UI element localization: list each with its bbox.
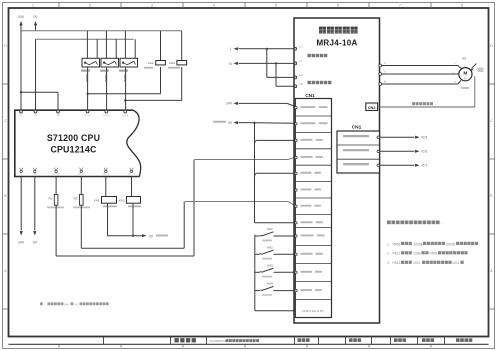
relay contact KA4 (NO) bbox=[255, 290, 260, 292]
svg-text:M: M bbox=[35, 115, 37, 117]
servo pin L11 bbox=[294, 76, 297, 79]
label main power supply (Chinese) bbox=[308, 54, 311, 57]
svg-text:I0.5: I0.5 bbox=[422, 136, 428, 140]
svg-text:24V: 24V bbox=[18, 241, 25, 245]
CN1 pin 11 bbox=[295, 271, 297, 273]
wire CPU DQa.2 to relay coil KA1 bbox=[105, 177, 107, 197]
CPU top pin M bbox=[34, 110, 37, 113]
CPU top pin DI a.2 bbox=[86, 110, 89, 113]
note common supply (Chinese) bbox=[40, 302, 43, 305]
wire coil KA1 to 0V arrow bbox=[107, 203, 109, 236]
label servo driver title (Chinese) bbox=[319, 27, 326, 34]
svg-text:KA1: KA1 bbox=[267, 227, 273, 231]
svg-text:6: 6 bbox=[337, 4, 339, 8]
svg-text:KA3: KA3 bbox=[169, 61, 175, 65]
wire CPU DQa.0 to resistor R1 bbox=[55, 177, 57, 195]
junction N to L21 bbox=[275, 62, 277, 64]
svg-text:KA3: KA3 bbox=[267, 263, 273, 267]
wire 0V vertical bus bbox=[254, 123, 256, 223]
relay coil KA2 bbox=[156, 61, 166, 65]
svg-text:R2: R2 bbox=[74, 197, 78, 201]
svg-text:L11: L11 bbox=[299, 74, 303, 77]
wire CN1 output to PLC input I0.7 bbox=[380, 164, 415, 166]
CN1 row 4 pin name text bbox=[301, 156, 313, 158]
relay contact KA1 (NO) bbox=[255, 235, 260, 237]
svg-text:KA4: KA4 bbox=[267, 282, 273, 286]
CN1 pin 8 bbox=[295, 222, 297, 224]
svg-text:KA2: KA2 bbox=[148, 61, 154, 65]
svg-text:M: M bbox=[34, 174, 36, 176]
CN1 row 5 pin name text bbox=[301, 172, 312, 174]
svg-text:DQ a.1: DQ a.1 bbox=[78, 174, 86, 176]
relay coil KA2 (bottom) bbox=[127, 197, 141, 204]
CN1 row 8 pin name text bbox=[301, 221, 313, 223]
svg-text::: : bbox=[441, 221, 442, 225]
svg-text:L: L bbox=[230, 47, 232, 51]
wire CN1 output to PLC input I0.5 bbox=[380, 136, 415, 138]
svg-text:PA13: PA13 bbox=[393, 261, 401, 265]
svg-text:1M: 1M bbox=[56, 115, 59, 117]
svg-text:R1: R1 bbox=[48, 197, 52, 201]
CN1 row 10 pin name text bbox=[301, 253, 313, 255]
wire 0V bus branch to CN1 pin 3 bbox=[255, 140, 296, 143]
wire R1 to CN1 pin SON (net B) bbox=[55, 205, 57, 256]
svg-text:24V: 24V bbox=[18, 15, 25, 19]
label control power supply (Chinese) bbox=[308, 81, 311, 84]
svg-text:7: 7 bbox=[399, 4, 401, 8]
net 0V down terminal from CPU M bbox=[34, 177, 36, 231]
CPU top pin DI a.1 bbox=[105, 110, 108, 113]
svg-text:S71200CPU: S71200CPU bbox=[210, 339, 227, 343]
net 0V supply terminal (up arrow) bbox=[34, 21, 37, 25]
switch SQ1 (enclosed pushbutton contact) bbox=[101, 58, 119, 67]
svg-text:3: 3 bbox=[151, 4, 153, 8]
label designator SB2 bbox=[119, 70, 128, 72]
CN1 row 11 pin name text bbox=[301, 271, 313, 273]
svg-text:M: M bbox=[463, 71, 467, 77]
wire 0V bus branch to CN1 pin 5 bbox=[255, 173, 296, 176]
svg-text:PA06: PA06 bbox=[393, 242, 401, 246]
note servo parameter heading bbox=[387, 221, 391, 225]
wire 24V rail to switch SB2 left pin bbox=[124, 31, 126, 59]
connector CN2 bbox=[366, 103, 378, 111]
servo pin L2 bbox=[294, 62, 297, 65]
svg-text:3.: 3. bbox=[387, 261, 390, 265]
relay coil KA3 bbox=[177, 61, 187, 65]
wire switch SB2 bottom to CPU input bbox=[125, 67, 127, 111]
svg-text:0V: 0V bbox=[33, 241, 38, 245]
wire 24V rail bbox=[21, 30, 182, 32]
svg-text:MRJ4-10A: MRJ4-10A bbox=[316, 38, 357, 47]
CN1 row 9 pin name text bbox=[301, 235, 314, 237]
CN1 pin 2 bbox=[295, 123, 297, 125]
svg-text:0V: 0V bbox=[75, 302, 79, 306]
wire encoder cable CN2 to motor encoder bbox=[378, 106, 475, 108]
wire 0V bus end to CN1 pin 8 bbox=[255, 222, 296, 224]
CN1 row 3 pin name text bbox=[301, 139, 313, 141]
wire net K3: switch SB2/CPU pin to relay coil KA3 bottom bbox=[125, 99, 182, 101]
svg-text:DQ a.0: DQ a.0 bbox=[53, 174, 61, 176]
svg-text:L21: L21 bbox=[299, 83, 304, 86]
PLC U1 S71200 CPU1214C box bbox=[15, 110, 140, 176]
motor M1 bbox=[459, 68, 472, 81]
svg-text:0011: 0011 bbox=[453, 261, 460, 265]
CN1 row 1 pin name text bbox=[301, 106, 316, 108]
CN1 pin 1 bbox=[295, 106, 297, 108]
svg-text:24V: 24V bbox=[226, 102, 233, 106]
wire 24V rail to coil KA2 bbox=[160, 31, 162, 61]
wire L+ drop to CPU pin L+ bbox=[20, 31, 22, 111]
label designator SQ1 bbox=[100, 70, 109, 72]
CN1 pin 7 bbox=[295, 205, 297, 207]
junction 0V bus bbox=[253, 122, 255, 124]
CN1 pin 6 bbox=[295, 189, 297, 191]
net 24V down terminal from CPU L+ bbox=[20, 177, 22, 231]
wire CPU DQa.3 to relay coil KA2 bbox=[131, 177, 133, 197]
svg-text:1088: 1088 bbox=[414, 252, 421, 256]
svg-text:PA06: PA06 bbox=[430, 252, 438, 256]
wire N to servo pin L21 bbox=[275, 63, 277, 86]
svg-text:1.: 1. bbox=[387, 242, 390, 246]
wire 0V rail to switch SB2 right pin bbox=[134, 39, 136, 58]
relay contact KA3 (NO) bbox=[255, 271, 260, 273]
wire U to motor bbox=[382, 65, 458, 67]
svg-text:B1: B1 bbox=[463, 57, 467, 61]
CPU top pin L+ bbox=[20, 110, 23, 113]
svg-text:DQ a.3: DQ a.3 bbox=[128, 174, 136, 176]
servo pin W bbox=[379, 83, 382, 86]
resistor R2 bbox=[80, 195, 84, 206]
svg-text:W: W bbox=[454, 82, 456, 84]
switch SB2 (enclosed pushbutton contact) bbox=[120, 58, 138, 67]
svg-text:B: B bbox=[4, 194, 6, 198]
svg-text:3~: 3~ bbox=[464, 77, 467, 81]
wire net K2: switch SB1 bottom to relay coil KA2 bottom bbox=[88, 93, 161, 95]
svg-text:KA2: KA2 bbox=[119, 199, 125, 203]
wire 24V rail to switch SB1 left pin bbox=[86, 31, 88, 59]
servo pin L1 bbox=[294, 47, 297, 50]
wire 0V rail bbox=[36, 38, 134, 40]
switch SB1 (enclosed pushbutton contact) bbox=[82, 58, 100, 67]
svg-text:I0.7: I0.7 bbox=[422, 164, 428, 168]
CN1 output pin row 2 bbox=[343, 149, 369, 151]
relay coil KA1 (bottom) bbox=[102, 197, 117, 204]
wire W to motor bbox=[382, 83, 458, 85]
svg-text:1: 1 bbox=[32, 4, 34, 8]
CN1 pin 5 bbox=[295, 172, 297, 174]
svg-text:2.: 2. bbox=[387, 252, 390, 256]
CN1 pin 4 bbox=[295, 156, 297, 158]
svg-text:0001: 0001 bbox=[414, 261, 421, 265]
wire contact bus to CN1 pin SG bottom row bbox=[255, 310, 297, 312]
svg-text:DI a.4: DI a.4 bbox=[122, 115, 129, 117]
svg-text:S71200 CPU: S71200 CPU bbox=[47, 133, 100, 143]
wire contact KA3 to CN1 pin bbox=[278, 271, 295, 273]
wire CN1 output to PLC input I0.6 bbox=[380, 150, 415, 152]
svg-text:P15R-1 SG(+2.5V): P15R-1 SG(+2.5V) bbox=[302, 309, 324, 313]
resistor R1 bbox=[54, 195, 58, 206]
wire V to motor bbox=[382, 73, 459, 75]
motor encoder arrow bbox=[472, 64, 477, 69]
svg-text:8: 8 bbox=[461, 4, 463, 8]
CN1 pin 9 bbox=[295, 235, 297, 237]
wire 0V rail to switch SB1 right pin bbox=[96, 39, 98, 58]
net 0V right arrow bbox=[142, 234, 146, 237]
CN1 row 6 pin name text bbox=[301, 189, 312, 191]
svg-text:4: 4 bbox=[213, 4, 215, 8]
label designator SB1 bbox=[81, 70, 90, 72]
wire 24V rail to coil KA3 bbox=[181, 31, 183, 61]
CN1 pin 10 bbox=[295, 253, 297, 255]
wire 24V rail to switch SQ1 left pin bbox=[105, 31, 107, 59]
svg-text:DQ a.2: DQ a.2 bbox=[102, 174, 110, 176]
wire contact KA2 to CN1 pin bbox=[278, 253, 295, 255]
svg-text:3000B: 3000B bbox=[446, 242, 455, 246]
svg-text:B: B bbox=[490, 194, 492, 198]
wire R2 to CN1 pin RES (net A) bbox=[80, 205, 82, 248]
CN1 row 2 pin name text bbox=[301, 122, 316, 124]
wire coil KA2 to 0V arrow bbox=[132, 203, 134, 236]
svg-text:KA1: KA1 bbox=[94, 199, 100, 203]
wire switch SB1 bottom to CPU input bbox=[87, 67, 89, 111]
wire 0V rail to switch SQ1 right pin bbox=[115, 39, 117, 58]
CPU top pin DI a.4 bbox=[124, 110, 127, 113]
svg-text:CN2: CN2 bbox=[368, 106, 376, 110]
svg-text:5: 5 bbox=[275, 4, 277, 8]
wire 1M from 24V rail to CPU pin 1M bbox=[21, 91, 58, 93]
CN1 row 7 pin name text bbox=[301, 205, 312, 207]
junction L to L11 bbox=[266, 48, 268, 50]
junction 24V/1M bbox=[20, 91, 22, 93]
CN1 output pin row 1 bbox=[343, 135, 369, 137]
wire contact KA4 to CN1 pin bbox=[278, 290, 295, 292]
CPU top pin 1M bbox=[57, 110, 60, 113]
CN1 pin 3 bbox=[295, 139, 297, 141]
svg-text:24V: 24V bbox=[64, 302, 69, 306]
servo driver U2 MRJ4-10A box bbox=[294, 18, 380, 323]
servo pin U bbox=[379, 64, 382, 67]
label encoder cable (Chinese) bbox=[412, 102, 415, 105]
svg-text:KA2: KA2 bbox=[267, 245, 273, 249]
svg-text:CPU1214C: CPU1214C bbox=[50, 145, 97, 155]
CN1 output pin row 3 bbox=[343, 163, 369, 165]
svg-text:I0.6: I0.6 bbox=[422, 150, 428, 154]
wire KA contact supply bus bbox=[254, 235, 256, 311]
svg-text:CN1: CN1 bbox=[352, 125, 362, 131]
svg-text:PA21: PA21 bbox=[393, 252, 401, 256]
svg-text:2: 2 bbox=[89, 4, 91, 8]
CN1 pin 12 bbox=[295, 289, 297, 291]
relay contact KA2 (NO) bbox=[255, 253, 260, 255]
wire switch SQ1 bottom to CPU input bbox=[106, 67, 108, 111]
svg-text:3000B: 3000B bbox=[414, 242, 423, 246]
net 24V supply terminal (up arrow) bbox=[19, 21, 22, 25]
wire M drop to CPU pin M bbox=[35, 39, 37, 111]
wire L to servo pin L11 bbox=[266, 49, 268, 78]
svg-text:DI a.1: DI a.1 bbox=[103, 115, 110, 117]
servo pin L21 bbox=[294, 85, 297, 88]
svg-text:DI a.2: DI a.2 bbox=[85, 115, 92, 117]
CN1 row 12 pin name text bbox=[301, 289, 313, 291]
wire contact KA1 to CN1 pin bbox=[278, 235, 295, 237]
wire CPU DQa.1 to resistor R2 bbox=[80, 177, 82, 195]
servo pin V bbox=[379, 73, 382, 76]
